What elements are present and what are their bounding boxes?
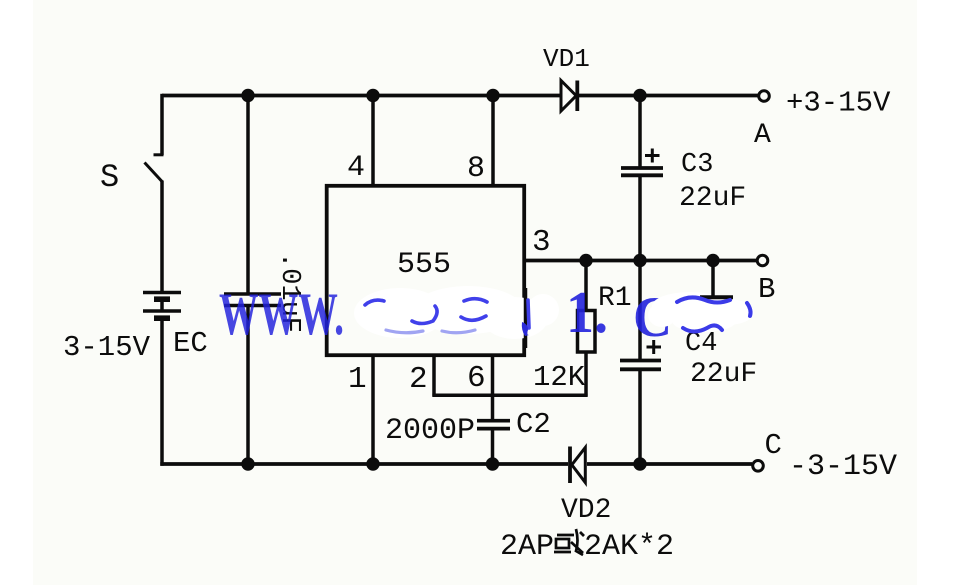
svg-text:555: 555 — [397, 248, 451, 282]
switch S blade — [145, 163, 163, 182]
svg-text:C4: C4 — [685, 329, 717, 359]
wire: switch branch upper — [160, 94, 164, 155]
capacitor C4 top plate — [620, 359, 661, 363]
wire: pin 3 output line — [524, 259, 757, 263]
wire: pin2/pin6/R1 connector — [432, 394, 587, 398]
diode VD2 cathode bar — [568, 447, 572, 484]
capacitor C3 top plate — [621, 166, 663, 170]
wire: C3 to pin3 line — [638, 177, 642, 261]
capacitor C1 top plate — [224, 292, 281, 296]
svg-text:4: 4 — [347, 151, 365, 185]
wire: bottom rail right segment to terminal C — [587, 462, 752, 466]
svg-text:2AP: 2AP — [500, 530, 554, 564]
capacitor C4 plus sign — [647, 346, 662, 349]
battery EC internal link — [160, 299, 164, 311]
capacitor C2 top plate — [477, 419, 510, 423]
capacitor C2 bottom plate — [477, 427, 510, 431]
junction dots top rail — [241, 89, 254, 102]
terminal A circle — [759, 91, 770, 102]
capacitor C3 bottom plate — [621, 173, 663, 177]
wire: top rail right segment to terminal A — [578, 94, 758, 98]
svg-text:C2: C2 — [516, 408, 551, 441]
wire: switch to battery — [160, 181, 164, 293]
svg-text:3: 3 — [532, 225, 551, 260]
svg-text:22uF: 22uF — [690, 359, 757, 390]
svg-text:WWW.: WWW. — [219, 281, 344, 347]
svg-text:+3-15V: +3-15V — [786, 87, 891, 120]
svg-text:8: 8 — [467, 152, 485, 186]
diode VD1 cathode bar — [575, 81, 579, 112]
wire: C3 branch upper — [638, 96, 642, 168]
wire: C1 branch lower — [246, 307, 250, 465]
diode VD1 triangle — [561, 81, 576, 112]
wire: R1 top lead — [584, 261, 588, 312]
op-amp/timer 555 box U1 — [327, 186, 525, 355]
555 box right border repaint over blob — [524, 288, 528, 348]
svg-text:2000P: 2000P — [385, 414, 475, 448]
wire: C4 branch upper — [638, 261, 642, 360]
diode VD2 triangle — [572, 448, 586, 483]
junction dots bottom rail — [241, 457, 254, 470]
battery EC plate long 2 — [143, 309, 181, 313]
wire: pin 4 stub — [371, 96, 375, 186]
terminal C circle — [753, 461, 764, 472]
svg-text:12K: 12K — [533, 361, 586, 394]
wire: battery to bottom rail — [160, 318, 164, 466]
wire: top rail left segment — [162, 94, 561, 98]
svg-text:C: C — [765, 429, 782, 462]
resistor R1 body — [578, 311, 596, 353]
wire: bottom rail left segment — [160, 462, 568, 466]
capacitor C4 bottom plate — [620, 367, 661, 371]
wire: pin 8 stub — [491, 96, 495, 186]
svg-text:2: 2 — [409, 362, 428, 397]
watermark blue wisps middle — [365, 299, 529, 328]
terminal B circle — [757, 255, 768, 266]
svg-text:VD2: VD2 — [561, 495, 611, 526]
wire: stub below pin3 line at node near B — [711, 261, 715, 297]
battery EC plate long 1 — [143, 291, 181, 295]
switch S contact tick — [154, 153, 164, 156]
svg-text:22uF: 22uF — [679, 183, 746, 214]
svg-text:1: 1 — [348, 362, 367, 397]
battery EC plate short 2 — [154, 315, 170, 321]
watermark blue wisps right — [677, 297, 751, 331]
junction dots pin3 line — [579, 254, 592, 267]
capacitor C3 plus sign — [645, 154, 660, 157]
svg-text:C3: C3 — [681, 150, 713, 180]
svg-text:EC: EC — [173, 327, 208, 360]
capacitor C1 bottom plate — [224, 304, 281, 308]
wire: C2 to bottom rail — [491, 430, 495, 464]
glyph hanzi huo — [554, 529, 584, 555]
battery EC plate short 1 — [154, 296, 170, 302]
watermark white blob middle — [354, 286, 559, 339]
svg-text:S: S — [100, 159, 119, 196]
svg-text:VD1: VD1 — [543, 44, 590, 74]
wire: pin 6 stub to C2 — [491, 355, 495, 419]
svg-text:1.: 1. — [566, 281, 608, 346]
svg-text:A: A — [754, 120, 771, 151]
node bar below B junction — [700, 295, 733, 299]
svg-text:-3-15V: -3-15V — [789, 450, 897, 484]
wire: pin 1 stub — [371, 355, 375, 464]
wire: pin 2 stub — [432, 355, 436, 397]
svg-text:3-15V: 3-15V — [63, 331, 151, 364]
svg-text:6: 6 — [467, 361, 486, 396]
wire: C1 branch upper — [246, 96, 250, 294]
wire: C4 to bottom rail — [638, 371, 642, 465]
watermark blue fragment on box border — [522, 322, 529, 336]
svg-text:B: B — [758, 273, 775, 306]
svg-text:2AK*2: 2AK*2 — [584, 530, 674, 564]
watermark white blob right — [648, 292, 754, 332]
wire: R1 bottom lead — [584, 352, 588, 397]
